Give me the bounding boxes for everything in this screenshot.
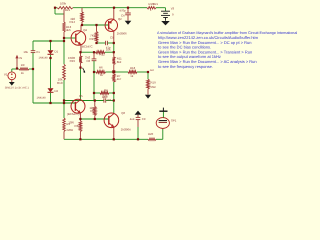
svg-text:R12: R12 <box>100 53 106 57</box>
svg-text:2N3904: 2N3904 <box>121 127 131 131</box>
svg-text:IN: IN <box>19 56 22 60</box>
svg-text:100k: 100k <box>60 1 67 5</box>
svg-text:4k7: 4k7 <box>117 77 122 81</box>
svg-text:4u4: 4u4 <box>130 117 135 121</box>
svg-text:(BC547C): (BC547C) <box>67 112 80 116</box>
svg-text:4k6: 4k6 <box>66 28 71 32</box>
svg-text:Q2: Q2 <box>118 17 122 21</box>
svg-text:0R1: 0R1 <box>153 2 159 6</box>
svg-text:Q6: Q6 <box>121 111 125 115</box>
svg-text:to see the frequency response.: to see the frequency response. <box>158 64 213 69</box>
svg-text:R9: R9 <box>21 63 25 67</box>
svg-text:220R: 220R <box>66 128 73 132</box>
svg-text:D2: D2 <box>55 89 59 93</box>
svg-text:Q4: Q4 <box>83 28 87 32</box>
svg-text:10k: 10k <box>106 47 111 51</box>
svg-text:BC547C: BC547C <box>82 45 93 49</box>
svg-text:R6: R6 <box>99 66 103 70</box>
svg-text:SINE( 0 1u 1k ) AC 1: SINE( 0 1u 1k ) AC 1 <box>5 86 30 89</box>
svg-text:C5: C5 <box>110 35 114 39</box>
svg-text:SP1: SP1 <box>171 119 177 123</box>
svg-text:C6: C6 <box>86 59 90 63</box>
svg-text:R18: R18 <box>130 66 136 70</box>
svg-text:R4: R4 <box>104 88 108 92</box>
svg-text:C9: C9 <box>142 117 146 121</box>
svg-text:R8: R8 <box>75 124 79 128</box>
svg-text:1N4148: 1N4148 <box>39 56 49 59</box>
svg-text:470p: 470p <box>119 8 126 12</box>
svg-text:out: out <box>150 68 154 72</box>
svg-text:C1: C1 <box>36 50 40 54</box>
svg-text:V3: V3 <box>171 7 175 11</box>
svg-text:Q5: Q5 <box>79 94 83 98</box>
svg-text:R14: R14 <box>69 20 75 24</box>
svg-text:C8: C8 <box>107 98 111 102</box>
svg-text:56R: 56R <box>151 85 156 89</box>
svg-text:R15: R15 <box>89 37 95 41</box>
svg-text:R15: R15 <box>70 59 76 63</box>
svg-text:R10: R10 <box>57 81 63 85</box>
svg-text:10u: 10u <box>23 50 28 54</box>
svg-text:C4: C4 <box>121 13 125 17</box>
svg-text:R21: R21 <box>65 8 71 12</box>
svg-text:D1: D1 <box>55 49 59 53</box>
svg-text:1N4148: 1N4148 <box>37 96 47 99</box>
svg-text:2N3906: 2N3906 <box>117 31 127 35</box>
svg-text:R20: R20 <box>148 132 154 136</box>
svg-text:8k2: 8k2 <box>117 60 122 64</box>
svg-text:R5: R5 <box>90 109 94 113</box>
svg-text:V1: V1 <box>4 73 8 77</box>
